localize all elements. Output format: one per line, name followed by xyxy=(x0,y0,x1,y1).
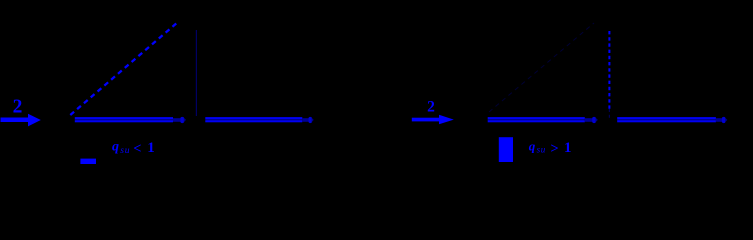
faint vertical bore line (left, dark) xyxy=(195,30,197,116)
svg-text:q: q xyxy=(529,138,536,153)
obstacle bump (right, tall) xyxy=(499,137,513,162)
label 2 (left piston speed) xyxy=(13,96,23,117)
arrowhead of segment C xyxy=(585,117,598,123)
svg-text:q: q xyxy=(112,140,119,155)
arrowhead of segment A xyxy=(173,117,186,123)
svg-text:>: > xyxy=(550,141,558,157)
svg-text:su: su xyxy=(120,146,130,156)
obstacle bump (left, small flat) xyxy=(80,159,96,164)
formula q_su &lt; 1 (left) xyxy=(112,140,155,158)
arrowhead of segment D xyxy=(716,117,727,123)
faint dashed characteristic line (right, dark) xyxy=(489,23,594,112)
dashed vertical bore line (right, bright) xyxy=(608,31,610,119)
svg-text:<: < xyxy=(133,141,141,157)
arrowhead of segment B xyxy=(302,117,313,123)
dashed characteristic line (left, bright) xyxy=(70,22,178,116)
svg-text:1: 1 xyxy=(564,140,572,156)
svg-text:2: 2 xyxy=(427,98,435,115)
streamline segment D (right, downstream) xyxy=(617,117,716,122)
streamline segment C (right, upstream) xyxy=(488,117,585,122)
streamline segment A (left, upstream) xyxy=(75,117,173,122)
label 2 (right piston speed) xyxy=(427,98,435,115)
piston arrow (left) xyxy=(1,114,41,127)
svg-text:su: su xyxy=(537,145,546,155)
formula q_su &gt; 1 (right) xyxy=(529,138,572,157)
streamline segment B (left, downstream) xyxy=(205,117,302,122)
svg-text:1: 1 xyxy=(147,140,155,156)
svg-text:2: 2 xyxy=(13,96,23,117)
piston arrow (right) xyxy=(412,115,454,125)
